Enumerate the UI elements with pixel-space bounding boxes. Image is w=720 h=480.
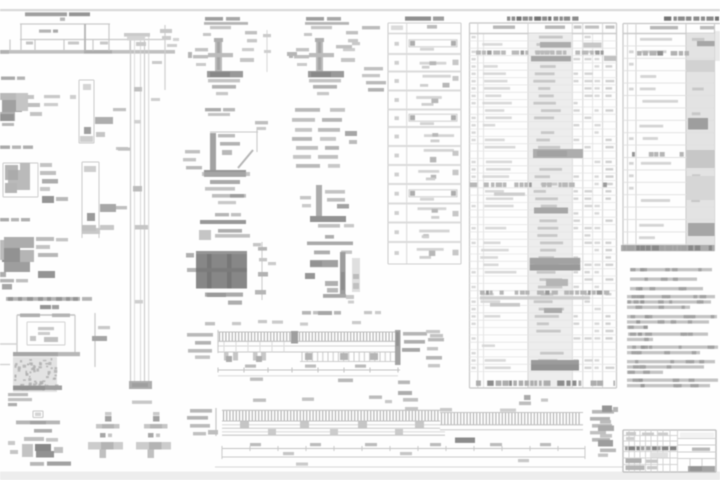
parts table row 5 sketch [409, 114, 457, 121]
right table gray patch 1 [687, 60, 715, 72]
node detail C base band [204, 170, 246, 177]
steel table section band 1 [540, 42, 571, 48]
node detail B side marks [296, 48, 309, 51]
small mark below steel table [524, 395, 531, 400]
title block right zone lines [678, 438, 717, 440]
steel table column lines [477, 23, 479, 388]
parts table row 9 sketch [409, 190, 457, 197]
beam 2 right section bottom line [440, 429, 583, 431]
node detail B crossing bar [309, 53, 334, 57]
parts table row 12 sketch [417, 248, 444, 251]
title block vertical lines [628, 430, 630, 472]
parts table row 8 position mark [395, 173, 399, 177]
right table column lines [627, 24, 629, 252]
plan detail section header text [6, 297, 80, 301]
left detail 3 side marks [36, 237, 54, 241]
beam 1 dimension texts [245, 365, 256, 368]
bracket detail bottom band [323, 294, 346, 298]
plan detail footing bottom band [13, 386, 62, 391]
steel table row content flecks [472, 36, 476, 38]
small text bottom centre [296, 463, 308, 466]
node detail B stem [316, 38, 323, 72]
node detail D stem [316, 185, 322, 218]
beam 2 lower band left section [222, 431, 445, 433]
node detail C frame [210, 131, 258, 133]
node detail C left marks [185, 150, 200, 153]
column side annotations [113, 108, 126, 111]
right table row lines [623, 45, 715, 47]
anchor detail 2 plan cross [100, 433, 106, 438]
node detail C diagonal brace [238, 150, 253, 168]
column vertical flange lines [130, 34, 132, 389]
left detail 1 title [1, 77, 15, 80]
right table gray patch 3 [687, 176, 715, 200]
left detail 3 title [0, 218, 9, 221]
node detail A base plate [207, 71, 243, 77]
plan detail outer rectangle [17, 314, 75, 316]
anchor detail 1 rail line [16, 421, 60, 425]
node detail B base plate [308, 71, 344, 77]
beam 2 left end post [215, 408, 217, 436]
plan detail left stub lines [0, 343, 17, 345]
steel table assembly text row 2 [470, 183, 477, 188]
hatched bearing block [196, 251, 247, 289]
parts table header row [388, 33, 461, 35]
right table bottom totals band [621, 245, 715, 251]
steel table frame [470, 22, 617, 24]
column stiffener marks [134, 87, 142, 92]
beam plan top chord line [20, 23, 110, 25]
beam plan bottom flange band [0, 50, 175, 54]
node detail A title [205, 17, 223, 21]
steel table section band 4 [534, 208, 568, 214]
title block doc number cell [680, 433, 714, 438]
parts table row 12 position mark [395, 251, 399, 255]
parts table row 10 sketch [418, 207, 447, 210]
parts table row 3 position mark [395, 79, 399, 83]
right table header row [623, 33, 720, 35]
beam 1 web ticks [223, 342, 225, 352]
parts table row 5 position mark [395, 116, 399, 120]
drawing title text top-left [25, 12, 67, 16]
plan detail title [40, 305, 51, 309]
left vertical element 2 marks [84, 166, 96, 172]
beam 1 lower texts [250, 378, 263, 381]
plan detail right rail [94, 313, 96, 367]
parts table row 2 sketch [420, 62, 447, 65]
title block sheet cell dark [688, 466, 715, 472]
beam 1 lower right notes [398, 391, 412, 395]
parts table row 1 sketch [409, 40, 457, 47]
parts table row 1 position mark [395, 42, 399, 46]
parts table row 7 position mark [395, 154, 399, 158]
left vertical element 1 outline [78, 80, 80, 143]
parts table rows [388, 53, 461, 55]
left detail 2 side marks [40, 163, 52, 167]
right table assembly text row [637, 51, 642, 56]
beam 1 left labels [187, 333, 213, 337]
right table assembly text row 2 [632, 152, 635, 157]
beam plan vertical ticks [20, 24, 22, 51]
beam 2 dimension texts 2 [283, 452, 294, 455]
parts table row 10 position mark [395, 211, 399, 215]
node detail A lower notes [208, 79, 240, 82]
left detail 3 hatched body [4, 237, 34, 248]
column top connection marks [124, 33, 150, 37]
steel table section band 6 [544, 308, 562, 313]
title block lower-left texts [626, 459, 642, 464]
beam 2 dark label [455, 438, 475, 443]
notes paragraphs [630, 268, 712, 271]
annotation right of node B [362, 26, 380, 29]
left vertical element 2 outline [81, 162, 83, 238]
parts table row 6 sketch [424, 134, 454, 137]
beam 1 comb bottom line [218, 340, 398, 342]
anchor detail 1 hatched section [35, 444, 51, 451]
label below bracket [302, 311, 311, 315]
steel table assembly text row 3 [480, 291, 485, 295]
parts table row 6 position mark [395, 135, 399, 139]
left vertical element 1 marks [83, 84, 91, 90]
node detail C title [205, 108, 221, 111]
clamp detail near title block [602, 406, 612, 413]
parts table title [405, 17, 431, 21]
secondary vertical member near column [164, 25, 166, 90]
node detail B lower notes [309, 79, 341, 82]
right table dark patch 2 [688, 223, 715, 236]
bearing block bottom band [205, 293, 243, 297]
parts table row 9 position mark [395, 192, 399, 196]
node detail C stem [210, 133, 216, 172]
bracket detail title [325, 235, 334, 239]
beam 2 dimension line 2 [222, 456, 585, 458]
sheet top border line [0, 9, 720, 11]
right table band 1 [697, 41, 715, 46]
left detail 2 title [0, 146, 10, 149]
left detail 2 lower plate [42, 196, 54, 203]
beam 1 dimension line [218, 369, 400, 371]
steel table section band 2 [531, 56, 571, 61]
node detail E title [215, 213, 229, 216]
right table sketch column shading [687, 34, 715, 252]
bearing block left marks [186, 253, 194, 258]
beam 2 web band left section [222, 424, 440, 426]
node detail B title [306, 17, 324, 21]
bracket detail lower marks [325, 281, 338, 286]
steel table row lines [470, 40, 617, 42]
parts table row 2 position mark [395, 61, 399, 65]
bracket rail bottom bits [346, 295, 354, 299]
right table title [664, 17, 671, 21]
parts table row 8 sketch [418, 170, 439, 173]
node detail E title underline band [200, 220, 246, 224]
node detail B extra marks [336, 45, 352, 48]
beam 1 second dimension line [218, 375, 398, 377]
node detail D side marks [325, 190, 345, 194]
plan detail inner text [38, 327, 54, 330]
left detail 1 hatched body [0, 93, 20, 100]
node detail A crossing bar [208, 53, 233, 57]
left detail 1 side marks [26, 95, 34, 99]
anchor detail 1 box [33, 410, 43, 412]
beam 1 end plate [395, 330, 401, 365]
beam 1 left supports [224, 353, 229, 361]
node detail C lower notes [210, 180, 240, 184]
title block mid texts [626, 432, 636, 435]
beam 1 top annotations [232, 322, 241, 325]
beam 1 deck comb hatch [219, 333, 221, 342]
bracket detail web [340, 252, 346, 297]
anchor detail 1 bottom band [47, 462, 71, 466]
bracket detail left lug [305, 273, 315, 279]
node detail A side marks [195, 48, 208, 51]
node detail E subtext [218, 229, 242, 233]
node detail D text grid [295, 108, 320, 112]
steel table title [507, 17, 510, 21]
baseline under bottom area [215, 466, 716, 468]
right table gray patch 2 [687, 150, 715, 168]
beam 1 right labels [403, 332, 427, 336]
beam 2 deck comb hatch right section [440, 412, 583, 414]
right table row content flecks [640, 38, 672, 41]
steel table dark total band [531, 360, 579, 371]
bearing block right dimension [261, 242, 263, 300]
steel table assembly text row 1 [476, 51, 481, 55]
beam plan middle chord line [20, 39, 165, 41]
title block header text row [625, 447, 628, 451]
beam 2 deck comb hatch left section [222, 409, 440, 411]
node detail A stem [215, 38, 222, 72]
steel table header row [470, 33, 617, 35]
title block middle cell fill [650, 453, 668, 458]
left detail 2 body outline [3, 162, 38, 164]
steel table bottom totals band [476, 381, 481, 386]
parts table row 3 sketch [423, 75, 451, 78]
beam 1 dark stiffener [291, 331, 298, 344]
title block frame [623, 430, 716, 472]
anchor detail 3 plan cross [148, 433, 154, 438]
parts table row 4 position mark [395, 98, 399, 102]
right table dark patch [688, 118, 708, 130]
parts table frame [388, 22, 461, 24]
beam 2 small labels above [253, 399, 266, 402]
label between anchor details [132, 401, 152, 404]
beam 1 web lines [218, 345, 398, 347]
plan detail hatched footing [13, 357, 57, 392]
left detail 2 hatch fill [5, 165, 18, 180]
beam 2 right end labels [592, 410, 614, 414]
steel table small band below 5 [546, 279, 568, 286]
beam 2 left labels [190, 409, 212, 413]
anchor detail 1 label [34, 429, 52, 433]
plan detail footing notes [8, 393, 28, 396]
steel table section band 3 [533, 149, 583, 158]
title block horizontal lines [623, 435, 678, 437]
node detail D base plate [310, 216, 346, 222]
node detail D lower note [318, 224, 340, 228]
plan detail inner rectangle [27, 321, 65, 323]
parts table row 11 sketch [419, 230, 449, 233]
anchor detail 3 bolt symbol [153, 412, 160, 415]
parts table row 11 position mark [395, 230, 399, 234]
steel table sketch column shading [529, 34, 572, 388]
sheet bottom margin band [0, 472, 720, 480]
parts table row 4 sketch [416, 96, 442, 99]
column base cap [129, 381, 152, 389]
steel table section band 5 [530, 258, 581, 265]
parts table row 7 sketch [424, 149, 454, 152]
anchor detail 2 bolt symbol [105, 412, 112, 415]
beam 2 dimension line 1 [222, 448, 585, 450]
left detail 3 lower plate [38, 271, 55, 278]
anchor detail 1 marks [24, 437, 44, 441]
bracket detail right rail [352, 258, 360, 292]
node detail C inner text [218, 134, 235, 137]
bracket detail text row [314, 251, 330, 255]
plan detail base band [13, 352, 80, 356]
beam 1 lower chord detail [301, 353, 303, 362]
beam 1 title [318, 311, 332, 315]
beam 1 top chord line [218, 331, 398, 333]
dimension line between nodes A and B [266, 30, 268, 72]
beam 2 dimension texts 1 [250, 443, 261, 446]
right table frame [623, 23, 720, 25]
beam plan dimension text [39, 30, 51, 33]
bracket detail top flange [310, 260, 338, 267]
